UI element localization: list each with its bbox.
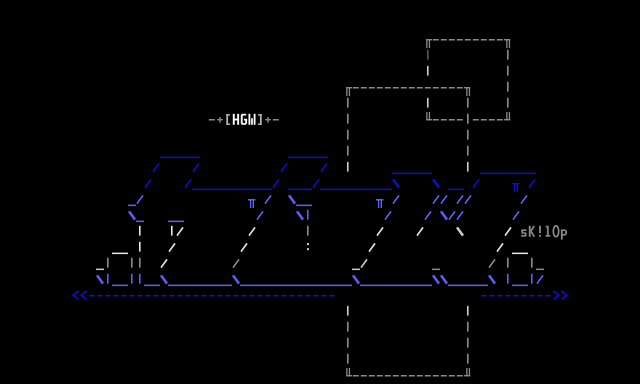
logo top outlines (dark blue) bbox=[145, 157, 536, 192]
top dashed box (rows 2-7, cols 53-63) bbox=[426, 39, 510, 121]
tall dashed box (rows 5-23, cols 43-58) bbox=[346, 87, 470, 377]
bottom rule left arrows bbox=[73, 291, 86, 300]
bottom rule right arrows bbox=[553, 291, 566, 300]
bottom dashed rule bbox=[89, 295, 551, 297]
HGW group tag label bbox=[209, 114, 279, 125]
logo baseline row (blue) bbox=[97, 274, 543, 286]
logo mid strokes (bright blue) bbox=[128, 195, 527, 222]
artist signature sK!l0p bbox=[521, 226, 567, 240]
logo gray shading row bbox=[96, 258, 544, 270]
logo white highlights bbox=[112, 226, 528, 254]
